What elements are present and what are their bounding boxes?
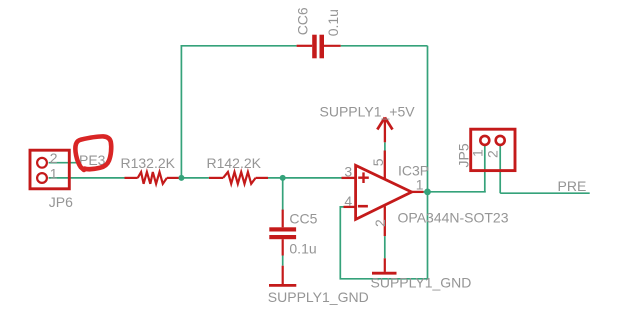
- wire feedback output node down, left, up to pin4: [340, 192, 427, 279]
- svg-text:2: 2: [372, 219, 388, 227]
- svg-text:SUPPLY1_GND: SUPPLY1_GND: [371, 274, 472, 290]
- svg-text:2: 2: [485, 150, 501, 158]
- connector JP5: [471, 129, 515, 170]
- op-amp IC3P: [342, 151, 424, 237]
- resistor R14: [209, 172, 268, 184]
- connector JP6: [30, 150, 69, 189]
- svg-text:4: 4: [344, 193, 352, 209]
- svg-text:0.1u: 0.1u: [325, 9, 341, 36]
- resistor R13: [125, 172, 179, 184]
- svg-text:CC6: CC6: [295, 7, 311, 35]
- annotation red scribble around PE3: [75, 136, 111, 170]
- wire CC5 to ground: [282, 256, 284, 266]
- svg-text:JP5: JP5: [455, 143, 471, 167]
- wire JP6 pin2 to net PE3: [49, 162, 79, 164]
- ground symbol under op-amp: [372, 258, 397, 273]
- svg-text:5: 5: [370, 158, 386, 166]
- capacitor CC6: [297, 35, 341, 59]
- svg-text:JP6: JP6: [49, 194, 73, 210]
- svg-text:IC3P: IC3P: [398, 163, 429, 179]
- wire right vertical CC6 down to output node: [427, 46, 429, 192]
- svg-text:0.1u: 0.1u: [289, 241, 316, 257]
- wire node A to R14: [181, 177, 209, 179]
- svg-text:SUPPLY1_GND: SUPPLY1_GND: [268, 289, 369, 305]
- capacitor CC5: [269, 210, 296, 256]
- wire JP6 pin1 to R13: [49, 177, 125, 179]
- wire JP5 pin2 to net PRE: [500, 192, 590, 194]
- supply +5V arrow symbol: [377, 118, 392, 143]
- wire node B down to CC5: [282, 178, 284, 211]
- svg-text:2: 2: [50, 150, 58, 166]
- svg-text:1: 1: [470, 149, 486, 157]
- wire top left to CC6: [181, 45, 297, 47]
- wire JP5 pin2 down: [499, 145, 501, 193]
- svg-text:R142.2K: R142.2K: [207, 155, 262, 171]
- svg-text:3: 3: [344, 163, 352, 179]
- svg-text:SUPPLY1_+5V: SUPPLY1_+5V: [320, 103, 416, 119]
- svg-text:1: 1: [416, 177, 424, 193]
- wire op-amp pin5 to supply arrow: [384, 142, 386, 150]
- output node junction: [424, 189, 431, 196]
- svg-text:R132.2K: R132.2K: [121, 155, 176, 171]
- wire output node to JP5 pin1: [428, 191, 486, 193]
- wire R13 to node A: [178, 177, 181, 179]
- svg-text:CC5: CC5: [289, 211, 317, 227]
- node B junction: [280, 175, 286, 181]
- wire op-amp pin2 to ground: [384, 236, 386, 258]
- wire JP5 pin1 down: [484, 145, 486, 192]
- node A junction: [178, 175, 184, 181]
- wire R14 to op-amp pin3: [268, 177, 342, 179]
- svg-text:OPA344N-SOT23: OPA344N-SOT23: [398, 210, 509, 226]
- wire node A up to CC6 top wire: [180, 46, 182, 178]
- wire op-amp output to node: [424, 191, 428, 193]
- ground symbol under CC5: [269, 266, 296, 286]
- svg-text:PRE: PRE: [558, 178, 587, 194]
- svg-text:1: 1: [50, 166, 58, 182]
- wire CC6 to right vertical: [341, 45, 428, 47]
